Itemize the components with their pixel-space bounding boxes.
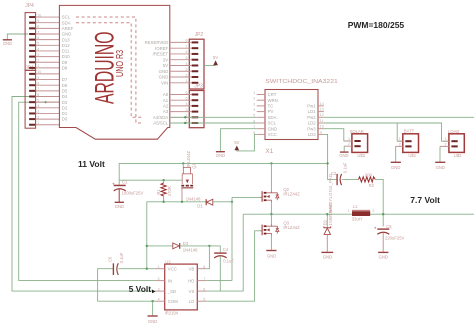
ground GND at C1 — [115, 202, 124, 209]
svg-text:D8: D8 — [62, 66, 68, 71]
svg-text:7: 7 — [186, 44, 188, 48]
svg-text:GND: GND — [115, 204, 124, 209]
svg-text:1: 1 — [158, 265, 160, 269]
svg-text:2: 2 — [253, 97, 255, 101]
JP4 pads, pin stubs and pin numbers 10..1 — [29, 13, 59, 69]
svg-text:GND: GND — [339, 153, 348, 158]
svg-text:Pw3: Pw3 — [307, 126, 316, 131]
svg-text:1N4148: 1N4148 — [183, 247, 198, 252]
svg-text:D3: D3 — [62, 100, 68, 105]
capacitor C2 0.1uF — [331, 162, 347, 185]
svg-text:D7: D7 — [62, 77, 68, 82]
svg-text:GND: GND — [267, 253, 276, 258]
svg-text:0.1uF: 0.1uF — [223, 258, 234, 263]
svg-text:A1: A1 — [163, 98, 169, 103]
svg-text:GND: GND — [268, 126, 278, 131]
svg-text:HO: HO — [188, 278, 195, 283]
ground GND at BATT pin 2 — [391, 146, 401, 170]
junction dot LD3 drop on rail — [326, 162, 328, 164]
supply 5V symbol at X1 VCC — [234, 134, 256, 151]
svg-text:VS: VS — [189, 289, 195, 294]
capacitor C1 1000uF25V — [112, 180, 143, 202]
junction dot on D3 wire — [44, 101, 46, 103]
svg-text:11 Volt: 11 Volt — [78, 159, 105, 169]
svg-text:4: 4 — [253, 108, 255, 112]
svg-text:5V: 5V — [234, 140, 239, 145]
wire net Pw3 row to SOLAR pin 1 — [324, 129, 352, 141]
wire net VS / output rail — [243, 213, 474, 215]
capacitor C6 0.1uF — [107, 252, 124, 275]
svg-text:SCL: SCL — [62, 15, 71, 20]
wire D1 anode to Q2 gate riser — [213, 201, 232, 203]
svg-text:470R: 470R — [167, 186, 172, 196]
svg-text:AREF: AREF — [62, 26, 74, 31]
wire VCC net left segment (GND side of C6) — [98, 269, 113, 302]
svg-text:7: 7 — [203, 277, 205, 281]
svg-text:D2: D2 — [62, 105, 68, 110]
svg-text:2: 2 — [399, 142, 401, 146]
ground GND at C5 — [378, 252, 388, 259]
svg-text:1N5819HW: 1N5819HW — [328, 204, 333, 226]
svg-text:2: 2 — [348, 142, 350, 146]
junction dot SDA — [184, 116, 186, 118]
svg-text:10: 10 — [320, 125, 324, 129]
svg-text:1: 1 — [348, 137, 350, 141]
svg-text:IR2104: IR2104 — [165, 311, 179, 316]
dashed net SDA link to A4/SDA — [76, 23, 143, 118]
svg-text:A3: A3 — [163, 109, 169, 114]
wire net Pw2 row (to LOAD, off page) — [324, 116, 474, 118]
svg-text:GND: GND — [436, 165, 445, 170]
svg-text:C6: C6 — [107, 256, 112, 262]
junction dot on Q2 gate riser — [231, 201, 233, 203]
wire Q2 drain to 11V rail — [270, 163, 272, 191]
svg-text:SDA: SDA — [268, 115, 277, 120]
svg-text:VIN: VIN — [161, 80, 168, 85]
svg-text:D0: D0 — [62, 117, 68, 122]
svg-text:9: 9 — [37, 19, 39, 23]
svg-text:2: 2 — [372, 209, 374, 213]
cursor wedge near 5 Volt — [152, 289, 156, 293]
junction dot COM/GND — [151, 300, 153, 302]
diode D3 1N4148 (pointing right) — [173, 241, 198, 253]
svg-text:C1: C1 — [122, 180, 128, 185]
svg-text:11: 11 — [320, 119, 324, 123]
connector U$1 BATT — [396, 129, 419, 159]
JP1 pads, pin stubs and pin numbers 10..1 — [29, 70, 59, 126]
svg-text:10: 10 — [37, 13, 41, 17]
svg-text:U$1: U$1 — [408, 153, 416, 158]
resistor R2 200 — [358, 172, 375, 188]
svg-text:5 Volt: 5 Volt — [129, 284, 152, 294]
inductor L1 33uH — [348, 204, 375, 221]
ground GND at X1 pin7 — [216, 129, 257, 159]
junction dot Q2 drain on rail — [270, 162, 272, 164]
svg-text:LD1: LD1 — [308, 109, 316, 114]
wire Q3 gate from LO — [206, 231, 260, 301]
wire Q1 source / R1 bottom / D1 node — [147, 202, 164, 269]
svg-text:R1: R1 — [156, 189, 161, 195]
svg-text:Pw1: Pw1 — [307, 104, 316, 109]
transistor Q3 IRLZ44Z — [260, 224, 279, 236]
svg-text:IRLZ44Z: IRLZ44Z — [283, 225, 300, 230]
svg-text:PV: PV — [268, 109, 274, 114]
svg-text:VB: VB — [189, 266, 195, 271]
svg-text:0.1uF: 0.1uF — [119, 252, 124, 263]
connector U$2 SOLAR — [345, 129, 368, 158]
svg-text:BATT: BATT — [404, 129, 415, 134]
svg-text:6: 6 — [37, 36, 39, 40]
svg-text:UNO R3: UNO R3 — [114, 50, 126, 77]
wire VB riser — [206, 246, 209, 269]
svg-text:TC: TC — [268, 104, 274, 109]
transistor Q2 IRLZ44Z — [260, 191, 279, 203]
svg-text:Pw2: Pw2 — [307, 115, 316, 120]
connector JP4 — [25, 3, 35, 70]
svg-text:WRN: WRN — [268, 98, 278, 103]
wire net SCL (Arduino A5 to INA3221) — [170, 122, 257, 124]
Arduino right pin name labels — [145, 40, 169, 126]
svg-text:4: 4 — [158, 297, 160, 301]
svg-text:GND: GND — [379, 254, 388, 259]
svg-text:+: + — [374, 226, 377, 231]
junction dot VCC/D3 feed — [146, 268, 148, 270]
ground GND at U2 COM — [148, 301, 158, 324]
junction dot VB riser tap — [208, 245, 210, 247]
JP3 pads, pin stubs and numbers — [170, 91, 199, 124]
svg-text:A0: A0 — [163, 92, 169, 97]
junction dot R1 bottom — [162, 201, 164, 203]
svg-text:8: 8 — [203, 265, 205, 269]
svg-text:0.1uF: 0.1uF — [342, 162, 347, 173]
resistor R1 470R — [156, 180, 172, 202]
svg-text:3: 3 — [158, 287, 160, 291]
svg-text:9: 9 — [37, 76, 39, 80]
wire net LD3 row down to 11 Volt rail and C2 — [324, 134, 337, 179]
svg-text:3: 3 — [186, 108, 188, 112]
X1 pin name labels — [268, 92, 317, 137]
svg-text:5V: 5V — [163, 63, 168, 68]
svg-text:GND: GND — [323, 254, 332, 259]
wire net 11V rail — [119, 163, 327, 180]
svg-text:D2: D2 — [322, 219, 327, 225]
svg-text:7.7 Volt: 7.7 Volt — [410, 195, 440, 205]
svg-text:IN: IN — [168, 278, 172, 283]
svg-text:7: 7 — [37, 87, 39, 91]
svg-text:D13: D13 — [62, 37, 70, 42]
wire R2 down to 7.7V rail and C5 — [375, 179, 383, 226]
svg-text:GND: GND — [148, 319, 157, 324]
svg-text:1: 1 — [253, 91, 255, 95]
svg-text:33uH: 33uH — [352, 217, 362, 222]
svg-text:GND: GND — [3, 41, 12, 46]
svg-text:1: 1 — [348, 209, 350, 213]
svg-text:8: 8 — [37, 25, 39, 29]
svg-text:L1: L1 — [353, 204, 358, 209]
svg-text:D4: D4 — [62, 94, 68, 99]
svg-text:/RESET: /RESET — [153, 52, 169, 57]
svg-text:GND: GND — [159, 69, 169, 74]
svg-text:D9: D9 — [62, 60, 68, 65]
svg-text:5: 5 — [37, 98, 39, 102]
svg-text:3: 3 — [253, 102, 255, 106]
svg-text:LD2: LD2 — [308, 121, 316, 126]
wire branch BATT pin 1 — [397, 123, 403, 141]
svg-text:220uF25V: 220uF25V — [385, 235, 405, 240]
svg-text:JP2: JP2 — [195, 32, 204, 38]
svg-text:LD3: LD3 — [308, 132, 316, 137]
svg-text:4: 4 — [186, 62, 188, 66]
wire C2 to R2 — [342, 178, 359, 180]
svg-text:5V: 5V — [213, 55, 218, 60]
svg-text:A2: A2 — [163, 104, 169, 109]
svg-text:A4/SDA: A4/SDA — [153, 115, 168, 120]
svg-text:4: 4 — [37, 47, 39, 51]
junction dot VS at Q2/Q3 — [270, 213, 272, 215]
svg-text:C4: C4 — [223, 247, 229, 252]
svg-text:CRT: CRT — [268, 92, 277, 97]
wire HO riser to Q2 gate — [231, 197, 233, 280]
JP2 pads, pin stubs and numbers — [170, 39, 199, 84]
svg-text:D1: D1 — [62, 111, 68, 116]
junction dot R1 top — [162, 179, 164, 181]
svg-text:JP4: JP4 — [25, 3, 34, 9]
svg-text:GND: GND — [216, 153, 225, 158]
svg-text:VCC: VCC — [168, 266, 177, 271]
svg-text:1: 1 — [37, 121, 39, 125]
svg-text:_SD: _SD — [167, 289, 176, 294]
svg-text:200: 200 — [365, 172, 373, 177]
svg-text:8: 8 — [37, 82, 39, 86]
dashed net SCL link to A5/SCL — [76, 17, 143, 123]
svg-text:U$2: U$2 — [357, 153, 365, 158]
svg-text:2: 2 — [445, 142, 447, 146]
diode D1 1N4148 (pointing left) — [186, 196, 213, 208]
junction dot Q1 source — [181, 201, 183, 203]
svg-text:3: 3 — [37, 53, 39, 57]
svg-text:9: 9 — [320, 130, 322, 134]
svg-text:GND: GND — [159, 75, 169, 80]
wire D3 row (VCC to bootstrap) — [147, 245, 173, 247]
connector U$3 LOAD — [440, 129, 464, 158]
svg-text:5: 5 — [37, 42, 39, 46]
svg-text:5: 5 — [253, 114, 255, 118]
wire Arduino D3 to IR2104 IN (net PWM) — [19, 102, 156, 280]
svg-text:6: 6 — [203, 287, 205, 291]
svg-text:D3: D3 — [183, 241, 189, 246]
svg-text:5: 5 — [186, 56, 188, 60]
svg-text:1000uF25V: 1000uF25V — [122, 191, 144, 196]
svg-text:10: 10 — [37, 70, 41, 74]
wire COM row — [98, 300, 156, 302]
Arduino left pin name labels — [62, 15, 74, 122]
svg-text:3: 3 — [37, 110, 39, 114]
IC U2 IR2104 — [156, 259, 207, 315]
op-amp? no: module ARDUINO UNO R3 outline — [59, 5, 169, 139]
supply 5V symbol at JP2 — [204, 55, 218, 65]
svg-text:JP3: JP3 — [194, 83, 203, 89]
svg-text:D6: D6 — [62, 83, 68, 88]
svg-text:2: 2 — [37, 115, 39, 119]
svg-text:2: 2 — [158, 277, 160, 281]
svg-text:SCL: SCL — [268, 121, 277, 126]
ground GND at Q3 source — [266, 251, 276, 259]
svg-text:2: 2 — [186, 73, 188, 77]
ground GND at D2 — [321, 252, 333, 259]
svg-text:7: 7 — [37, 30, 39, 34]
svg-text:3: 3 — [186, 68, 188, 72]
junction dot Q1 drain on rail — [182, 162, 184, 164]
svg-text:8: 8 — [186, 39, 188, 43]
wire Q2 gate from HO riser — [232, 196, 260, 198]
wire Q2 source to VS node — [270, 202, 272, 215]
X1 right pin stubs and numbers 14-9 — [318, 102, 324, 135]
svg-text:GND: GND — [62, 32, 72, 37]
junction dot D3 anode tap — [146, 245, 148, 247]
svg-text:6: 6 — [253, 119, 255, 123]
svg-text:1: 1 — [445, 137, 447, 141]
ground GND at SOLAR pin 2 — [339, 146, 348, 158]
svg-text:1: 1 — [399, 137, 401, 141]
X1 left pin stubs and numbers 1-8 — [253, 91, 265, 135]
capacitor C5 220uF25V — [374, 224, 405, 252]
svg-text:3V: 3V — [163, 57, 168, 62]
svg-text:1N4148: 1N4148 — [186, 196, 201, 201]
svg-text:6: 6 — [37, 93, 39, 97]
junction dot R2/C5 on rail — [382, 213, 384, 215]
wire Arduino D4 to IR2104 SD (net SDPIN) — [12, 97, 156, 292]
svg-text:1: 1 — [37, 64, 39, 68]
wire net LD2 row to BATT and LOAD pin 1 — [324, 123, 449, 141]
svg-text:D5: D5 — [62, 88, 68, 93]
svg-text:14: 14 — [320, 102, 324, 106]
svg-text:D12: D12 — [62, 43, 70, 48]
ground GND top-left — [3, 34, 28, 46]
svg-text:6: 6 — [186, 91, 188, 95]
svg-text:VCC: VCC — [268, 132, 277, 137]
svg-text:4: 4 — [186, 102, 188, 106]
wire Q3 drain to VS — [270, 214, 272, 225]
svg-text:IOREF: IOREF — [155, 46, 169, 51]
svg-text:SDA: SDA — [62, 20, 71, 25]
svg-text:D11: D11 — [62, 49, 70, 54]
wire net SDA (Arduino A4 to INA3221) — [170, 116, 257, 118]
svg-text:R2: R2 — [369, 183, 375, 188]
svg-text:RESERVED: RESERVED — [145, 40, 169, 45]
svg-text:13: 13 — [320, 108, 324, 112]
svg-text:X1: X1 — [265, 148, 273, 155]
svg-text:C5: C5 — [386, 224, 392, 229]
wire 11V gate line C1 to Q1 — [119, 179, 182, 181]
svg-text:IRLZ44Z: IRLZ44Z — [186, 151, 191, 168]
wire Q3 source to ground — [270, 235, 272, 250]
svg-text:A5/SCL: A5/SCL — [153, 121, 168, 126]
wire VCC net right segment — [119, 268, 156, 270]
svg-text:LO: LO — [189, 299, 195, 304]
svg-text:12: 12 — [320, 113, 324, 117]
svg-text:2: 2 — [37, 59, 39, 63]
svg-text:D1: D1 — [197, 203, 203, 208]
svg-text:PWM=180/255: PWM=180/255 — [348, 20, 405, 30]
svg-text:COM: COM — [168, 299, 178, 304]
diode D2 1N5819HW (schottky, pointing up) — [322, 204, 332, 252]
junction dot SCL — [184, 122, 186, 124]
transistor Q1 IRLZ44Z (rotated MOSFET) — [181, 151, 196, 202]
svg-text:SWITCHDOC_INA3221: SWITCHDOC_INA3221 — [265, 79, 338, 85]
svg-text:5: 5 — [186, 97, 188, 101]
connector JP1 — [25, 66, 35, 129]
ground GND at LOAD pin 2 — [435, 146, 445, 170]
svg-text:Q1: Q1 — [191, 163, 196, 169]
svg-text:U$3: U$3 — [454, 153, 462, 158]
svg-text:IRLZ44Z: IRLZ44Z — [283, 192, 300, 197]
svg-text:4: 4 — [37, 104, 39, 108]
wire D2 cathode to rail — [326, 214, 328, 227]
svg-text:GND: GND — [391, 165, 400, 170]
svg-text:1: 1 — [186, 79, 188, 83]
svg-text:D10: D10 — [62, 54, 70, 59]
svg-text:6: 6 — [186, 50, 188, 54]
capacitor C4 0.1uF (bootstrap) — [214, 247, 234, 291]
svg-text:5: 5 — [203, 297, 205, 301]
